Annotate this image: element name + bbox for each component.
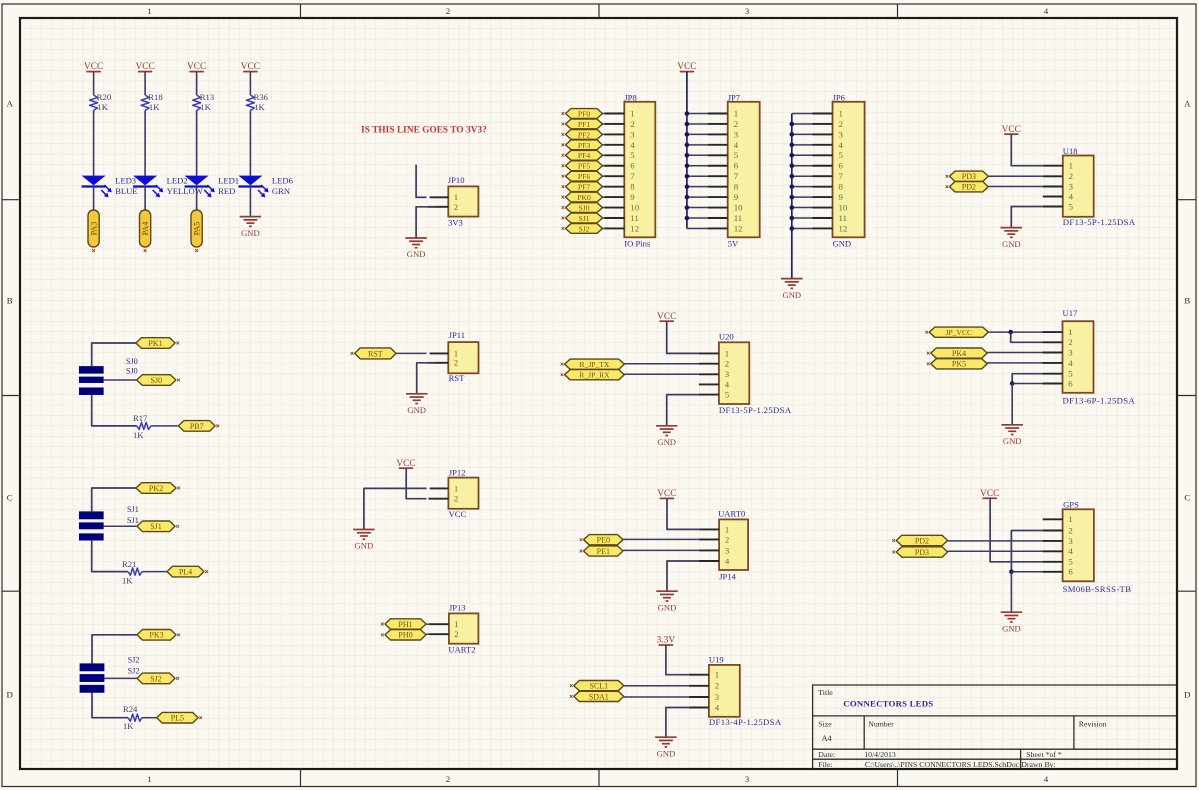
wire PE1 to JP14.3 [623,549,699,551]
wire SJ0 to JP8.10 [603,207,605,209]
svg-text:VCC: VCC [657,312,676,322]
svg-text:DF13-5P-1.25DSA: DF13-5P-1.25DSA [719,405,792,415]
svg-text:DF13-4P-1.25DSA: DF13-4P-1.25DSA [709,717,782,727]
wire SJ1 to JP8.11 [603,217,605,219]
svg-text:Title: Title [818,688,833,697]
junction JP6.4 [790,143,795,148]
svg-text:2: 2 [454,629,458,639]
zone tick left A|B [2,199,20,201]
pin JP14.4 [699,560,719,562]
svg-text:SJ2: SJ2 [128,667,140,676]
svg-text:6: 6 [1068,567,1073,577]
wire bus to JP6.4 [792,144,813,146]
wire PF2 to JP8.3 [603,133,605,135]
wire R36 to LED6 [249,111,251,176]
wire bus to JP6.6 [792,165,813,167]
svg-text:VCC: VCC [84,62,103,72]
pin JP10.2 [428,206,448,208]
port SJ2 [566,224,603,234]
svg-text:RED: RED [218,186,235,196]
svg-text:VCC: VCC [1002,125,1021,135]
solder jumper SJ0 pad bottom [79,388,103,395]
wire bus to JP6.12 [792,227,813,229]
pin U17.1 [1043,331,1063,333]
ground GND (JP6 bus) [781,278,803,280]
svg-text:GND: GND [241,228,260,238]
port PF0 [566,109,603,119]
wire bus to JP7.12 [687,227,708,229]
pin U20.4 [699,383,719,385]
junction JP7.9 [685,195,690,200]
port SCL1 [574,681,624,691]
pin U17.2 [1043,341,1063,343]
svg-text:8: 8 [839,182,844,192]
svg-text:DF13-6P-1.25DSA: DF13-6P-1.25DSA [1063,395,1136,405]
wire PF7 to JP8.8 [603,186,605,188]
wire VCC to GPS.5 [990,498,1043,562]
svg-text:JP10: JP10 [448,175,465,185]
svg-text:6: 6 [630,161,635,171]
connector JP7 5V [728,102,760,238]
svg-text:2: 2 [454,358,458,368]
connector JP12 [448,478,478,509]
resistor R36 1K [246,95,254,111]
svg-text:3: 3 [745,774,749,784]
solder jumper SJ2 pad middle [80,674,104,681]
wire VCC to U20.1 [667,321,699,353]
svg-text:2: 2 [725,359,729,369]
svg-text:LED6: LED6 [272,176,294,186]
svg-text:R17: R17 [133,413,148,423]
svg-text:R24: R24 [123,704,138,714]
pin JP8.12 [604,227,624,229]
pin JP11.1 [430,352,449,354]
svg-text:1K: 1K [97,102,108,112]
svg-text:SJ0: SJ0 [151,376,163,385]
svg-text:2: 2 [454,494,458,504]
junction JP7.8 [685,184,690,189]
pin GPS.3 [1043,540,1063,542]
wire VCC bus JP7 [686,72,688,229]
junction U17.1 tap [1008,330,1013,335]
wire bus to JP6.7 [792,175,813,177]
wire LED3 to pad PA3 [93,187,95,210]
wire VCC to R18 [144,72,146,95]
svg-text:7: 7 [839,171,844,181]
svg-text:JP8: JP8 [624,93,636,103]
port RST [355,348,396,359]
junction JP7.5 [685,153,690,158]
ground GND (U17) [1001,424,1023,426]
pin JP7.8 [708,186,728,188]
junction JP6.7 [790,174,795,179]
junction U17 ground [1010,381,1015,386]
svg-text:PF0: PF0 [578,109,590,118]
ground GND (U18) [1001,227,1023,229]
svg-text:PK4: PK4 [952,349,966,358]
pin GPS.1 [1043,518,1063,520]
junction JP7.10 [685,205,690,210]
wire PD3 to U18.2 [988,175,1043,177]
wire LED2 to pad PA4 [144,187,146,210]
svg-text:SJ0: SJ0 [126,366,138,375]
resistor R13 1K [193,95,201,111]
svg-text:3: 3 [725,545,730,555]
svg-text:UART2: UART2 [448,644,475,654]
svg-text:10/4/2013: 10/4/2013 [864,750,896,759]
svg-text:4: 4 [734,140,739,150]
svg-text:SJ2: SJ2 [128,655,140,664]
pin JP7.1 [708,113,728,115]
wire dangling 3V3 line [416,165,426,198]
svg-text:GND: GND [833,238,852,248]
svg-text:1: 1 [1068,514,1072,524]
pin GPS.5 [1043,561,1063,563]
svg-text:PL4: PL4 [179,568,192,577]
wire VCC to R36 [249,72,251,95]
wire PH1 to JP13.1 [426,623,429,625]
svg-text:RST: RST [449,373,466,383]
LED LED3 BLUE [82,176,106,186]
wire R18 to LED2 [144,111,146,176]
pin JP14.1 [699,528,719,530]
svg-text:JP12: JP12 [449,467,466,477]
svg-text:UART0: UART0 [718,509,745,519]
zone tick top 3|4 [897,4,899,18]
svg-text:C:\Users\..\PINS CONNECTORS LE: C:\Users\..\PINS CONNECTORS LEDS.SchDoc [865,760,1020,769]
svg-text:SJ0: SJ0 [579,203,590,212]
wire U19.4 to ground [666,708,689,737]
svg-text:5: 5 [630,150,635,160]
ground GND (JP12) [353,529,375,531]
svg-text:GND: GND [407,249,426,259]
port SDA1 [574,691,624,701]
port PK5 [931,359,987,369]
svg-text:PE0: PE0 [597,536,610,545]
svg-text:9: 9 [734,192,739,202]
resistor R18 1K [141,95,149,111]
port PK2 [136,483,176,494]
junction GPS ground [1009,570,1014,575]
pin U17.3 [1043,352,1063,354]
wire VCC to JP12.2 [406,468,426,499]
port PK1 [136,338,175,349]
pin U17.4 [1043,362,1063,364]
svg-text:GND: GND [1002,239,1021,249]
svg-text:1: 1 [147,6,151,16]
junction JP6.3 [790,132,795,137]
svg-text:B: B [1184,296,1190,306]
pin JP13.1 [429,623,449,625]
wire GPS.2 to ground branch [1011,531,1042,572]
svg-text:JP6: JP6 [833,93,846,103]
port R_JP_RX [565,370,625,380]
junction JP7.4 [685,143,690,148]
port PF5 [566,161,603,171]
svg-text:2: 2 [734,119,738,129]
pad PA5 [191,210,202,247]
svg-text:SDA1: SDA1 [589,692,609,701]
svg-text:9: 9 [839,192,844,202]
svg-text:PK2: PK2 [149,484,163,493]
svg-text:1: 1 [454,619,458,629]
zone tick top 1|2 [300,4,302,18]
pin JP8.2 [604,123,624,125]
pin JP7.4 [708,144,728,146]
svg-text:R20: R20 [97,92,111,102]
svg-text:Number: Number [868,719,894,728]
wire GND bus JP6 [791,114,793,279]
pin JP8.5 [604,154,624,156]
wire bus to JP7.3 [687,133,708,135]
wire bus to JP6.11 [792,217,813,219]
port PF6 [566,171,603,181]
wire GPS.6 to ground branch [1011,571,1042,573]
wire bus to JP7.8 [687,186,708,188]
wire PD2 to GPS.3 [948,540,1043,542]
svg-text:A4: A4 [822,734,832,743]
zone tick right A|B [1177,199,1196,201]
svg-text:SJ0: SJ0 [126,357,138,366]
svg-text:4: 4 [1044,6,1049,16]
svg-text:3: 3 [745,6,749,16]
wire PF3 to JP8.4 [603,144,605,146]
wire bus to JP7.11 [687,217,708,219]
svg-text:SJ1: SJ1 [127,516,139,525]
svg-text:2: 2 [446,6,450,16]
svg-text:3.3V: 3.3V [657,636,676,646]
pin JP8.7 [604,175,624,177]
svg-text:Size: Size [818,719,832,728]
junction JP6.11 [790,216,795,221]
svg-text:R36: R36 [254,92,269,102]
pin JP7.10 [708,207,728,209]
LED LED2 YELLOW [133,176,157,186]
wire JP14.4 to ground [667,561,699,591]
svg-text:10: 10 [630,202,639,212]
svg-text:2: 2 [1069,171,1073,181]
svg-text:VCC: VCC [657,489,676,499]
wire PF1 to JP8.2 [603,123,605,125]
svg-text:5: 5 [839,150,844,160]
junction JP7.3 [685,132,690,137]
svg-text:PF2: PF2 [578,130,590,139]
pin JP6.1 [813,113,833,115]
ground GND (JP14) [656,590,678,592]
resistor R20 1K [90,95,98,111]
wire R24 to PL5 [142,717,157,719]
svg-text:B: B [7,296,13,306]
port PF2 [566,130,603,140]
svg-text:PH0: PH0 [398,631,412,640]
solder jumper SJ1 pad bottom [79,534,103,541]
junction JP7.7 [685,174,690,179]
svg-text:1: 1 [715,670,719,680]
svg-text:U20: U20 [719,331,734,341]
svg-text:GND: GND [782,290,801,300]
wire tap to U17.2 [1011,332,1043,342]
svg-text:PF6: PF6 [578,172,590,181]
svg-text:Sheet *of *: Sheet *of * [1026,750,1062,759]
pin JP8.4 [604,144,624,146]
svg-text:PB7: PB7 [190,422,204,431]
svg-text:GND: GND [1002,623,1021,633]
wire bus to JP7.10 [687,207,708,209]
svg-text:4: 4 [630,140,635,150]
wire bus to JP7.2 [687,123,708,125]
junction JP6.9 [790,195,795,200]
zone tick top 2|3 [598,4,600,18]
svg-text:6: 6 [734,161,739,171]
wire R_JP_RX to U20.3 [624,373,699,375]
wire bus to JP6.8 [792,186,813,188]
solder jumper SJ0 pad middle [79,377,103,383]
wire bus to JP7.9 [687,196,708,198]
junction JP6.6 [790,163,795,168]
solder jumper SJ1 pad top [79,512,103,519]
port PD3 [896,547,947,557]
pin U18.5 [1043,206,1063,208]
wire PK5 to U17.4 [987,362,1042,364]
wire SJ0 middle to SJ0 port [103,379,136,381]
svg-text:1: 1 [839,108,843,118]
svg-text:6: 6 [839,161,844,171]
svg-text:8: 8 [734,182,739,192]
pin U19.2 [689,685,709,687]
svg-text:2: 2 [1068,337,1072,347]
svg-text:3: 3 [1069,181,1074,191]
solder jumper SJ1 pad middle [79,523,103,529]
port PL4 [167,566,204,577]
svg-text:JP7: JP7 [728,93,741,103]
svg-text:3: 3 [1068,347,1073,357]
pad PA4 [140,210,151,247]
wire PF5 to JP8.6 [603,165,605,167]
pin JP6.5 [813,154,833,156]
wire bus to JP7.4 [687,144,708,146]
svg-text:2: 2 [454,202,458,212]
svg-text:4: 4 [725,556,730,566]
svg-text:8: 8 [630,182,635,192]
svg-text:1K: 1K [149,102,160,112]
svg-text:R21: R21 [122,559,136,569]
junction JP7.1 [685,111,690,116]
svg-text:SJ1: SJ1 [127,505,139,514]
wire JP12.1 to ground corner [364,488,427,529]
wire bus to JP6.10 [792,207,813,209]
svg-text:R_JP_TX: R_JP_TX [579,360,609,369]
port PD3 [950,171,989,181]
wire JP11.2 to ground [417,363,436,394]
svg-text:R13: R13 [200,92,214,102]
LED LED6 GRN [238,176,262,186]
svg-text:U18: U18 [1063,146,1078,156]
svg-text:1: 1 [1068,327,1072,337]
pin JP12.2 [428,498,448,500]
pin U17.5 [1043,373,1063,375]
svg-text:VCC: VCC [396,459,415,469]
svg-text:2: 2 [630,119,634,129]
zone tick right B|C [1177,395,1196,397]
pin JP14.3 [699,549,719,551]
connector GPS SM06B-SRSS-TB [1063,509,1094,581]
port SJ0 [566,203,603,213]
svg-text:3: 3 [715,692,720,702]
pad PA3 [88,210,99,247]
svg-text:4: 4 [839,140,844,150]
junction JP7.6 [685,163,690,168]
svg-text:2: 2 [725,534,729,544]
wire R17 to PB7 [151,425,179,427]
svg-text:PE1: PE1 [597,547,610,556]
svg-text:GND: GND [657,437,676,447]
pin U19.4 [689,707,709,709]
pin JP6.3 [813,133,833,135]
svg-text:U17: U17 [1063,308,1079,318]
svg-text:DF13-5P-1.25DSA: DF13-5P-1.25DSA [1063,217,1136,227]
svg-text:1: 1 [454,192,458,202]
svg-text:4: 4 [725,379,730,389]
wire JP_VCC to U17.1 [988,331,1042,333]
pin JP7.2 [708,123,728,125]
pin U20.1 [699,352,719,354]
wire PF6 to JP8.7 [603,175,605,177]
connector U17 DF13-6P-1.25DSA [1063,321,1094,393]
svg-text:VCC: VCC [677,62,696,72]
port PF4 [566,150,603,160]
svg-text:1K: 1K [200,102,211,112]
svg-text:PA3: PA3 [89,222,98,236]
wire JP10.2 to ground [416,207,436,238]
port PD2 [950,182,989,192]
pin JP8.8 [604,186,624,188]
pin JP6.6 [813,165,833,167]
svg-text:JP13: JP13 [449,602,466,612]
pin JP13.2 [429,633,449,635]
svg-text:Revision: Revision [1079,719,1107,728]
title block frame [813,685,1177,769]
LED LED1 RED [185,176,209,186]
ground GND (LED6) [240,216,262,218]
zone tick left C|D [2,590,20,592]
pin JP7.6 [708,165,728,167]
wire SJ1 top to PK2 [92,488,136,512]
svg-text:11: 11 [734,213,742,223]
svg-text:PF7: PF7 [578,183,590,192]
pin U18.3 [1043,186,1063,188]
svg-text:PK0: PK0 [577,193,591,202]
wire bus to JP7.5 [687,154,708,156]
svg-text:GND: GND [658,602,677,612]
wire LED6 to ground [249,187,251,217]
port PB7 [178,421,215,432]
pin U18.4 [1043,196,1063,198]
wire bus to JP6.1 [792,113,813,115]
resistor R21 1K [128,568,142,575]
svg-text:C: C [1184,493,1190,503]
svg-text:PD3: PD3 [915,548,929,557]
wire bus to JP7.7 [687,175,708,177]
pin JP6.9 [813,196,833,198]
wire PH0 to JP13.2 [426,633,429,635]
svg-text:A: A [1184,99,1191,109]
pin GPS.6 [1043,571,1063,573]
svg-text:1K: 1K [133,430,144,440]
port PD2 [896,535,947,545]
connector JP13 [449,613,479,643]
wire SJ2 middle to SJ2 port [104,677,137,679]
svg-text:2: 2 [839,119,843,129]
